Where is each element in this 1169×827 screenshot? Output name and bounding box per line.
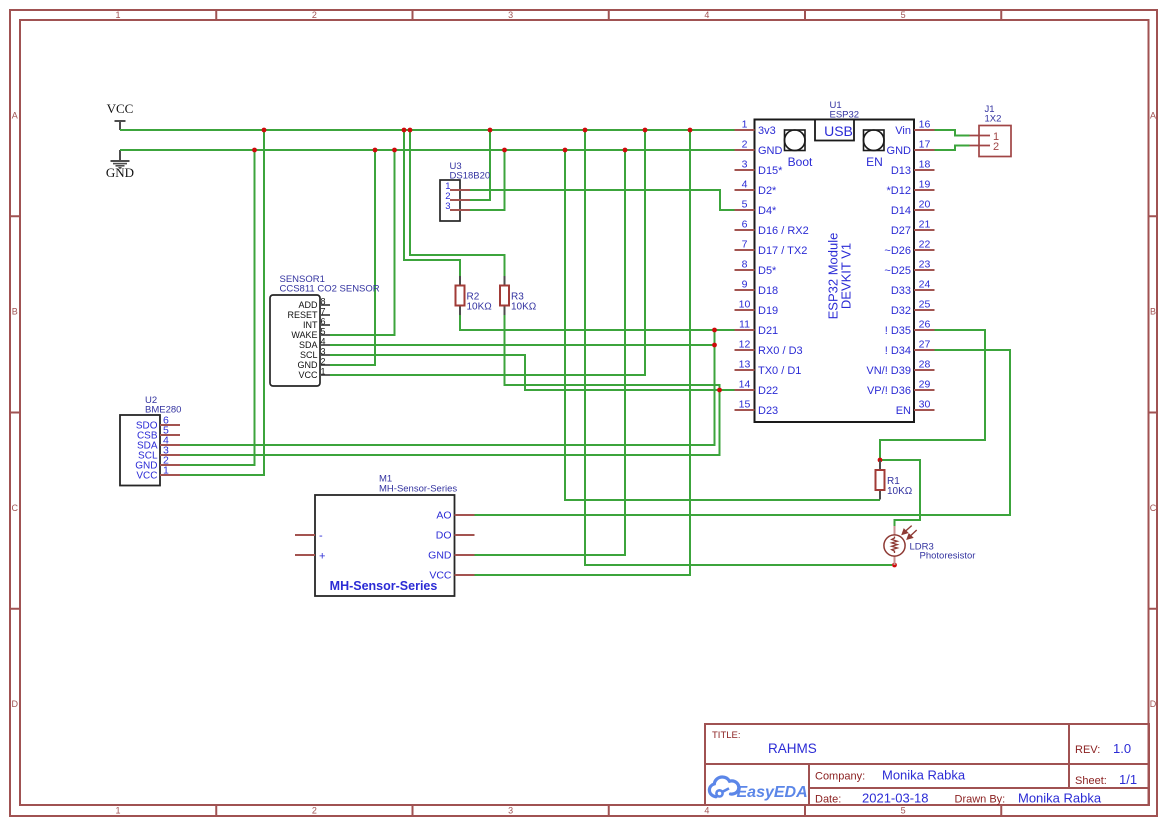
svg-text:17: 17 <box>919 139 931 151</box>
wire VCC to U2 BME280 VCC pin1 <box>180 130 264 475</box>
svg-text:INT: INT <box>303 320 318 330</box>
svg-text:D19: D19 <box>758 305 778 317</box>
svg-text:A: A <box>1150 110 1156 120</box>
svg-text:8: 8 <box>321 297 326 307</box>
svg-text:D32: D32 <box>891 305 911 317</box>
svg-text:D21: D21 <box>758 325 778 337</box>
U1 pin 4 D2* <box>735 179 778 198</box>
U3 pin 1 <box>445 181 470 192</box>
svg-text:28: 28 <box>919 359 931 371</box>
U1 pin 25 D32 <box>891 299 935 318</box>
svg-text:3: 3 <box>742 159 748 171</box>
U1 pin 13 TX0 / D1 <box>735 359 802 378</box>
svg-text:Boot: Boot <box>788 155 813 169</box>
wire U3 pin1 to U1 D4* <box>470 190 735 210</box>
svg-text:SDA: SDA <box>299 340 318 350</box>
svg-text:D14: D14 <box>891 205 911 217</box>
svg-text:DO: DO <box>436 530 452 542</box>
svg-text:24: 24 <box>919 279 931 291</box>
svg-text:Sheet:: Sheet: <box>1075 775 1107 787</box>
U2 pin 1 VCC <box>136 465 180 482</box>
svg-text:-: - <box>319 530 323 542</box>
U1 pin 18 D13 <box>891 159 935 178</box>
U1 designator labels <box>830 100 860 121</box>
M1 pin GND <box>428 550 474 562</box>
junction dots on VCC rail <box>262 128 693 133</box>
svg-text:D: D <box>1150 699 1157 709</box>
SENSOR1 pin 5 WAKE <box>291 327 330 341</box>
svg-text:3: 3 <box>445 201 450 212</box>
svg-text:5: 5 <box>742 199 748 211</box>
wire net SCL vertical to BME280 SCL <box>180 390 720 455</box>
svg-text:ESP32 ModuleDEVKIT V1: ESP32 ModuleDEVKIT V1 <box>826 233 854 320</box>
svg-text:CCS811 CO2 SENSOR: CCS811 CO2 SENSOR <box>280 284 380 295</box>
svg-text:EN: EN <box>896 405 911 417</box>
U1 EN button <box>864 130 885 169</box>
svg-text:D15*: D15* <box>758 165 783 177</box>
svg-text:GND: GND <box>106 165 134 180</box>
junction node SCL at U1 D22 <box>717 388 722 393</box>
svg-text:D2*: D2* <box>758 185 777 197</box>
wire VCC rail <box>120 129 735 131</box>
svg-text:5: 5 <box>321 327 326 337</box>
svg-text:D13: D13 <box>891 165 911 177</box>
svg-text:VCC: VCC <box>107 101 134 116</box>
svg-text:5: 5 <box>901 806 906 816</box>
wire net SDA: R2 bottom to U1 D21 <box>460 315 735 330</box>
svg-text:Drawn By:: Drawn By: <box>955 794 1006 806</box>
svg-text:4: 4 <box>742 179 748 191</box>
U1 pin 5 D4* <box>735 199 778 218</box>
wire net SCL: R3 bottom jog to U1 D22 <box>505 315 720 390</box>
svg-text:C: C <box>12 503 19 513</box>
svg-text:1.0: 1.0 <box>1113 741 1131 756</box>
ground GND <box>106 150 134 180</box>
svg-text:C: C <box>1150 503 1157 513</box>
svg-text:1/1: 1/1 <box>1119 772 1137 787</box>
M1 pin + (plus) <box>295 551 325 563</box>
svg-text:+: + <box>319 551 325 563</box>
svg-text:D4*: D4* <box>758 205 777 217</box>
svg-text:MH-Sensor-Series: MH-Sensor-Series <box>379 484 457 495</box>
svg-text:25: 25 <box>919 299 931 311</box>
U1 pin 28 VN/! D39 <box>866 359 934 378</box>
svg-text:GND: GND <box>298 360 319 370</box>
M1 pin AO <box>436 510 474 522</box>
M1 designator labels <box>379 474 457 495</box>
U1 pin 27 ! D34 <box>885 339 935 358</box>
U2 pin 2 GND <box>135 455 180 472</box>
svg-text:~D25: ~D25 <box>884 265 911 277</box>
svg-text:29: 29 <box>919 379 931 391</box>
svg-text:Company:: Company: <box>815 771 865 783</box>
svg-text:23: 23 <box>919 259 931 271</box>
svg-text:3: 3 <box>508 10 513 20</box>
junction node SDA at U1 D21 <box>712 328 717 333</box>
U1 pin 8 D5* <box>735 259 778 278</box>
U1 pin 10 D19 <box>735 299 779 318</box>
SENSOR1 pin 1 VCC <box>298 367 330 381</box>
svg-text:Monika Rabka: Monika Rabka <box>1018 791 1102 806</box>
svg-text:REV:: REV: <box>1075 744 1100 756</box>
U1 pin 2 GND <box>735 139 783 158</box>
svg-text:1: 1 <box>115 10 120 20</box>
svg-text:10KΩ: 10KΩ <box>887 486 913 497</box>
svg-text:*D12: *D12 <box>887 185 911 197</box>
op-amp U1 ESP32 module body <box>755 120 915 423</box>
U2 pin 3 SCL <box>138 445 180 462</box>
svg-text:1: 1 <box>742 119 748 131</box>
SENSOR1 pin 8 ADD <box>298 297 330 311</box>
wire GND to M1 GND pin <box>475 150 626 555</box>
svg-text:VP/! D36: VP/! D36 <box>867 385 911 397</box>
svg-text:7: 7 <box>321 307 326 317</box>
U2 pin 6 SDO <box>136 415 180 432</box>
U1 pin 7 D17 / TX2 <box>735 239 808 258</box>
resistor R3 10KΩ <box>500 276 537 315</box>
M1 pin - (minus) <box>295 530 323 542</box>
svg-text:6: 6 <box>742 219 748 231</box>
wire GND to R1 bottom <box>565 150 880 500</box>
svg-text:D27: D27 <box>891 225 911 237</box>
svg-text:8: 8 <box>742 259 748 271</box>
U1 pin 9 D18 <box>735 279 779 298</box>
svg-text:4: 4 <box>321 337 326 347</box>
svg-text:4: 4 <box>704 10 709 20</box>
wire GND rail <box>120 149 735 151</box>
U1 pin 3 D15* <box>735 159 784 178</box>
svg-text:12: 12 <box>739 339 751 351</box>
svg-text:21: 21 <box>919 219 931 231</box>
wire U1 D35 to R1 top <box>880 330 985 465</box>
U1 pin 19 *D12 <box>887 179 935 198</box>
svg-text:5: 5 <box>901 10 906 20</box>
U3 designator labels <box>450 161 491 182</box>
wire GND to SENSOR1 GND pin2 <box>330 150 375 365</box>
svg-text:Date:: Date: <box>815 794 841 806</box>
SENSOR1 pin 4 SDA <box>299 337 330 351</box>
svg-text:D: D <box>12 699 19 709</box>
M1 pin DO <box>436 530 475 542</box>
U1 pin 11 D21 <box>735 319 779 338</box>
svg-text:13: 13 <box>739 359 751 371</box>
resistor R1 10KΩ <box>876 461 913 500</box>
J1 pin 2 <box>970 141 1000 153</box>
svg-text:Vin: Vin <box>895 125 911 137</box>
svg-text:VCC: VCC <box>136 471 157 482</box>
U1 pin 24 D33 <box>891 279 935 298</box>
svg-text:4: 4 <box>704 806 709 816</box>
U2 designator labels <box>145 395 181 416</box>
svg-text:2021-03-18: 2021-03-18 <box>862 791 929 806</box>
svg-text:3: 3 <box>508 806 513 816</box>
wire GND to U2 BME280 GND pin2 <box>180 150 255 465</box>
svg-text:10KΩ: 10KΩ <box>511 302 537 313</box>
svg-text:2: 2 <box>312 806 317 816</box>
svg-text:7: 7 <box>742 239 748 251</box>
svg-text:Monika Rabka: Monika Rabka <box>882 768 966 783</box>
svg-text:SCL: SCL <box>300 350 318 360</box>
svg-text:26: 26 <box>919 319 931 331</box>
wire U1 Vin to J1 pin1 <box>935 130 970 136</box>
svg-text:14: 14 <box>739 379 751 391</box>
svg-text:3v3: 3v3 <box>758 125 776 137</box>
svg-text:2: 2 <box>321 357 326 367</box>
U1 Boot button <box>785 130 814 169</box>
junction node LDR3 bottom <box>892 563 897 568</box>
junction node R1 top / D35 <box>878 458 883 463</box>
junction dots on GND rail <box>252 148 627 153</box>
svg-text:GND: GND <box>758 145 783 157</box>
module M1 MH-Sensor-Series body <box>315 495 455 596</box>
svg-text:~D26: ~D26 <box>884 245 911 257</box>
svg-text:22: 22 <box>919 239 931 251</box>
U1 pin 16 Vin <box>895 119 934 138</box>
U2 pin 5 CSB <box>137 425 180 442</box>
svg-text:RX0 / D3: RX0 / D3 <box>758 345 803 357</box>
U SENSOR1 CCS811 body <box>270 295 320 386</box>
J1 designator labels <box>985 104 1002 125</box>
svg-text:27: 27 <box>919 339 931 351</box>
wire VCC to R3 top <box>410 130 505 276</box>
svg-text:! D34: ! D34 <box>885 345 911 357</box>
svg-text:A: A <box>12 110 18 120</box>
svg-text:D18: D18 <box>758 285 778 297</box>
U1 pin 17 GND <box>887 139 935 158</box>
wire VCC to R2 top <box>404 130 460 276</box>
svg-text:RAHMS: RAHMS <box>768 741 817 756</box>
svg-text:D17 / TX2: D17 / TX2 <box>758 245 807 257</box>
U1 pin 1 3v3 <box>735 119 776 138</box>
wire VCC to M1 VCC pin <box>475 130 691 575</box>
svg-text:10KΩ: 10KΩ <box>467 302 493 313</box>
wire GND to SENSOR1 WAKE pin5 <box>330 150 395 335</box>
svg-text:Photoresistor: Photoresistor <box>920 551 976 562</box>
resistor R2 10KΩ <box>456 276 493 315</box>
U1 pin 6 D16 / RX2 <box>735 219 809 238</box>
U1 USB connector box <box>815 120 854 141</box>
SENSOR1 designator labels <box>280 274 380 295</box>
svg-text:1X2: 1X2 <box>985 114 1002 125</box>
svg-text:16: 16 <box>919 119 931 131</box>
junction node SDA <box>712 343 717 348</box>
J1 pin 1 <box>970 131 1000 143</box>
wire VCC to U3 pin2 <box>470 130 490 200</box>
U1 pin 21 D27 <box>891 219 935 238</box>
U1 pin 29 VP/! D36 <box>867 379 935 398</box>
svg-text:1: 1 <box>115 806 120 816</box>
wire net SCL: SENSOR1 SCL to U1 D22 <box>330 355 735 390</box>
wire U1 D34 to M1 AO <box>475 350 1011 515</box>
EasyEDA logo <box>709 777 807 801</box>
svg-text:19: 19 <box>919 179 931 191</box>
svg-text:D5*: D5* <box>758 265 777 277</box>
wire U1 GND to J1 pin2 <box>935 146 970 151</box>
svg-text:10: 10 <box>739 299 751 311</box>
svg-text:DS18B20: DS18B20 <box>450 171 491 182</box>
title block texts <box>712 730 1137 806</box>
svg-text:15: 15 <box>739 399 751 411</box>
U2 BME280 body <box>120 415 160 486</box>
svg-text:D22: D22 <box>758 385 778 397</box>
svg-text:RESET: RESET <box>287 310 318 320</box>
U3 pin 2 <box>445 191 470 202</box>
M1 pin VCC <box>429 570 474 582</box>
svg-text:GND: GND <box>428 550 452 562</box>
svg-text:20: 20 <box>919 199 931 211</box>
wire R1 top to LDR3 top <box>880 460 920 527</box>
svg-text:MH-Sensor-Series: MH-Sensor-Series <box>330 579 438 593</box>
svg-text:D33: D33 <box>891 285 911 297</box>
svg-text:TX0 / D1: TX0 / D1 <box>758 365 801 377</box>
U1 pin 30 EN <box>896 399 935 418</box>
svg-text:ADD: ADD <box>298 300 318 310</box>
wire net SDA vertical to BME280 SDA <box>330 330 715 345</box>
svg-text:ESP32: ESP32 <box>830 110 860 121</box>
svg-text:EasyEDA: EasyEDA <box>737 784 808 801</box>
SENSOR1 pin 2 GND <box>298 357 331 371</box>
connector J1 1X2 body <box>979 126 1011 157</box>
U1 pin 14 D22 <box>735 379 779 398</box>
svg-text:! D35: ! D35 <box>885 325 911 337</box>
svg-text:D23: D23 <box>758 405 778 417</box>
svg-text:B: B <box>1150 307 1156 317</box>
svg-text:VN/! D39: VN/! D39 <box>866 365 911 377</box>
svg-text:2: 2 <box>993 141 999 153</box>
svg-text:1: 1 <box>163 465 169 477</box>
svg-text:2: 2 <box>312 10 317 20</box>
photoresistor LDR3 <box>884 526 976 565</box>
SENSOR1 pin 6 INT <box>303 317 330 331</box>
svg-text:VCC: VCC <box>429 570 452 582</box>
svg-text:EN: EN <box>866 155 883 169</box>
wire VCC to LDR3 bottom <box>585 130 892 565</box>
svg-text:AO: AO <box>436 510 451 522</box>
SENSOR1 pin 3 SCL <box>300 347 330 361</box>
svg-text:11: 11 <box>739 319 750 331</box>
U3 pin 3 <box>445 201 470 212</box>
svg-text:B: B <box>12 307 18 317</box>
svg-text:2: 2 <box>742 139 748 151</box>
svg-text:TITLE:: TITLE: <box>712 730 741 741</box>
title block <box>705 724 1149 805</box>
wire VCC to SENSOR1 VCC pin1 <box>330 130 645 375</box>
svg-text:WAKE: WAKE <box>291 330 317 340</box>
svg-text:GND: GND <box>887 145 912 157</box>
connector U3 DS18B20 body <box>440 180 460 221</box>
svg-text:D16 / RX2: D16 / RX2 <box>758 225 809 237</box>
U1 pin 22 ~D26 <box>884 239 934 258</box>
wire GND to U3 pin3 <box>470 150 505 210</box>
U1 pin 15 D23 <box>735 399 779 418</box>
svg-text:3: 3 <box>321 347 326 357</box>
SENSOR1 pin 7 RESET <box>287 307 330 321</box>
svg-text:USB: USB <box>824 123 853 139</box>
svg-text:18: 18 <box>919 159 931 171</box>
svg-text:6: 6 <box>321 317 326 327</box>
U2 pin 4 SDA <box>137 435 180 452</box>
U1 pin 23 ~D25 <box>884 259 934 278</box>
power flag VCC <box>107 101 134 130</box>
U1 pin 26 ! D35 <box>885 319 935 338</box>
svg-text:1: 1 <box>321 367 326 377</box>
svg-text:9: 9 <box>742 279 748 291</box>
svg-text:VCC: VCC <box>298 370 318 380</box>
U1 pin 12 RX0 / D3 <box>735 339 803 358</box>
U1 pin 20 D14 <box>891 199 935 218</box>
svg-text:30: 30 <box>919 399 931 411</box>
